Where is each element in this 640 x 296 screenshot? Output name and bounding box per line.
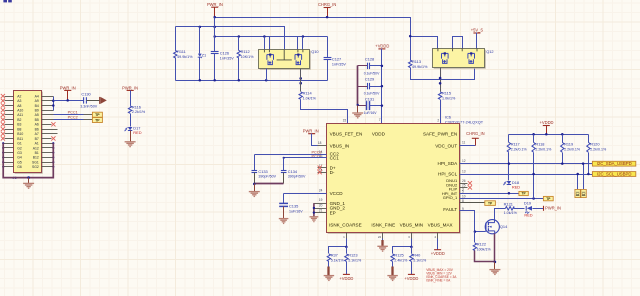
svg-text:G4: G4 — [17, 156, 22, 160]
wire GND bracket — [313, 203, 315, 216]
svg-text:GPIO_1: GPIO_1 — [443, 195, 458, 200]
svg-text:1.0k/1%: 1.0k/1% — [442, 96, 456, 100]
svg-text:Q10: Q10 — [311, 49, 319, 54]
resistor R40 — [411, 247, 413, 254]
svg-text:R118: R118 — [535, 142, 544, 147]
svg-text:SG1: SG1 — [32, 160, 39, 164]
svg-text:A12: A12 — [33, 146, 39, 150]
resistor R119 — [562, 135, 564, 143]
svg-text:390pF/50V: 390pF/50V — [288, 175, 306, 179]
wire R115 to SAFE_PWR_EN pin — [440, 100, 442, 124]
svg-text:R123: R123 — [348, 253, 357, 258]
ground at J6 — [28, 178, 30, 184]
svg-text:R113: R113 — [412, 59, 421, 64]
wire source rail y36 — [215, 36, 328, 38]
capacitor C126 — [214, 18, 216, 52]
svg-text:R37: R37 — [331, 253, 338, 258]
wire D17 to ground — [130, 131, 132, 142]
power port +VDDD (VBUS_MAX) — [434, 249, 441, 251]
svg-text:24: 24 — [319, 189, 323, 193]
wire Q12 drains to safe power — [440, 68, 442, 92]
svg-text:B8: B8 — [17, 127, 21, 131]
svg-text:C135: C135 — [289, 204, 298, 209]
transistor Q14 — [485, 220, 499, 234]
svg-text:I2C_SCL_USBPD: I2C_SCL_USBPD — [597, 172, 632, 177]
LED D18 — [507, 181, 512, 184]
wire gate rail y27 — [176, 27, 285, 50]
svg-text:2: 2 — [437, 119, 439, 123]
wire C130 to chassis — [87, 100, 100, 102]
svg-text:4: 4 — [434, 235, 436, 239]
svg-text:I2C_SDA_USBPD: I2C_SDA_USBPD — [597, 161, 632, 166]
svg-text:2.2k/0.1%: 2.2k/0.1% — [511, 148, 528, 152]
capacitor C135 — [283, 194, 285, 204]
resistor R113 — [409, 60, 412, 68]
jumper J (SDA) — [581, 189, 586, 197]
right pins rows 5-6 of J6 (PCC1/PCC2) — [42, 114, 54, 116]
wire Q14 drain to R121 — [495, 209, 506, 223]
svg-text:ISNK_FINE = 0A: ISNK_FINE = 0A — [426, 278, 451, 282]
svg-text:1uF/16V: 1uF/16V — [289, 209, 303, 213]
power port +VDDD (R40) — [411, 262, 413, 275]
svg-text:RED: RED — [512, 184, 520, 189]
svg-text:3.3nF/50V: 3.3nF/50V — [80, 104, 98, 108]
wire top rail PWR_IN/CHRG_IN — [215, 18, 411, 61]
svg-text:C133: C133 — [258, 169, 267, 174]
svg-text:B5: B5 — [35, 118, 39, 122]
svg-text:49.9k/1%: 49.9k/1% — [177, 55, 193, 59]
svg-text:B12: B12 — [33, 156, 39, 160]
wire ground loop around J6 — [3, 143, 53, 177]
chassis arrow after C130 — [99, 97, 101, 104]
svg-text:R111: R111 — [177, 49, 186, 54]
no-connect pins left of J6 (rows 1-10) — [5, 96, 14, 98]
svg-text:A2: A2 — [17, 94, 21, 98]
wire HPI_SCL — [460, 174, 593, 176]
wire R116 to D17 — [130, 114, 132, 127]
svg-text:Z1: Z1 — [202, 52, 207, 57]
wire Q10 drains down — [266, 69, 268, 81]
svg-text:15: 15 — [343, 119, 347, 123]
svg-text:C134: C134 — [288, 169, 298, 174]
port label I2C_SCL_USBPD — [592, 172, 635, 177]
svg-text:B7: B7 — [35, 137, 39, 141]
svg-text:VBUS_FET_EN: VBUS_FET_EN — [330, 132, 363, 137]
svg-text:A7: A7 — [35, 132, 39, 136]
wire C127 down to gate rail — [327, 60, 329, 81]
wire R114 to VBUS_FET_EN pin — [301, 100, 348, 124]
wire R122 to ground — [475, 251, 495, 262]
svg-text:Q12: Q12 — [486, 49, 493, 54]
svg-text:18: 18 — [318, 141, 322, 145]
svg-text:20: 20 — [319, 204, 323, 208]
ground pins left of J6 (rows 11-16) — [4, 143, 14, 145]
svg-text:TP: TP — [95, 119, 100, 123]
svg-text:+VDDD: +VDDD — [431, 251, 445, 256]
svg-text:2.2k/0.1%: 2.2k/0.1% — [564, 148, 581, 152]
svg-text:R125: R125 — [394, 253, 403, 258]
wire HPI_INT to test point — [460, 193, 519, 195]
svg-text:1.0k/1%: 1.0k/1% — [303, 96, 317, 100]
ground at D17 — [125, 141, 136, 143]
resistor R120 — [588, 135, 590, 143]
svg-text:D-: D- — [330, 170, 335, 175]
wire VCCD to C135 — [284, 193, 327, 195]
wire Q14 source to ground — [494, 234, 496, 262]
svg-text:3: 3 — [408, 235, 410, 239]
svg-text:B11: B11 — [17, 137, 23, 141]
svg-text:ISNK_FINE: ISNK_FINE — [371, 222, 395, 227]
svg-text:19: 19 — [319, 198, 323, 202]
wire VDC_OUT — [460, 145, 476, 147]
svg-text:ISNK_COARSE: ISNK_COARSE — [329, 222, 362, 227]
svg-text:10K/1%: 10K/1% — [241, 55, 255, 59]
svg-text:G3: G3 — [17, 151, 22, 155]
svg-text:1: 1 — [343, 235, 345, 239]
wire R113 bottom to Q12 drain rail — [411, 68, 475, 80]
svg-text:390pF/50V: 390pF/50V — [258, 175, 276, 179]
test point TP (PCC1) — [84, 114, 93, 116]
svg-text:2.2k/0.1%: 2.2k/0.1% — [535, 148, 552, 152]
svg-text:CHRG_IN: CHRG_IN — [318, 2, 336, 7]
ground at cap bank — [357, 106, 359, 113]
capacitor C127 — [327, 37, 329, 58]
svg-text:22: 22 — [378, 235, 382, 239]
svg-text:SAFE_PWR_EN: SAFE_PWR_EN — [423, 132, 457, 137]
wire CC1 — [284, 157, 327, 159]
svg-text:PWR_IN: PWR_IN — [60, 85, 76, 90]
svg-text:R116: R116 — [132, 104, 141, 109]
svg-text:A5: A5 — [35, 113, 39, 117]
test point TP (GPIO_1) — [543, 196, 553, 200]
ground at ISNK_FINE — [377, 245, 388, 247]
svg-text:C127: C127 — [332, 56, 341, 61]
svg-text:+VDDD: +VDDD — [540, 120, 554, 125]
svg-text:12: 12 — [462, 159, 466, 163]
capacitor C133 — [254, 155, 256, 171]
wire CC caps ground bar — [255, 183, 284, 185]
svg-text:B1: B1 — [35, 151, 39, 155]
svg-text:VBUS_MAX: VBUS_MAX — [428, 222, 453, 227]
svg-text:A1: A1 — [35, 142, 39, 146]
wire HPI_SDA — [460, 163, 593, 165]
TVS diode Z1 — [199, 27, 201, 54]
svg-text:11: 11 — [462, 140, 466, 144]
svg-text:B4: B4 — [35, 104, 39, 108]
wire Q10 top pins — [264, 37, 266, 50]
svg-text:G2: G2 — [17, 146, 22, 150]
svg-text:100k/1%: 100k/1% — [477, 247, 492, 251]
wire +VDDD vertical to VDDD pin — [381, 49, 383, 124]
svg-text:A8: A8 — [17, 104, 21, 108]
wire PWR_IN vertical at connector — [53, 97, 55, 111]
svg-text:CHRG_IN: CHRG_IN — [466, 131, 484, 136]
svg-text:C129: C129 — [365, 77, 374, 82]
resistor R111 — [175, 27, 177, 51]
svg-text:VBUS_MIN: VBUS_MIN — [400, 222, 424, 227]
wire PCC1 — [54, 114, 84, 116]
svg-text:R122: R122 — [477, 242, 486, 247]
pin 3 VBUS_MIN wire — [411, 233, 413, 239]
svg-text:PCC2: PCC2 — [68, 116, 78, 120]
svg-text:SG2: SG2 — [32, 165, 39, 169]
resistor R122 — [473, 243, 476, 251]
no-connect pins right of J6 (rows 7-10) — [42, 124, 52, 126]
wire gate bottom rail y80 — [176, 80, 328, 82]
svg-text:G6: G6 — [17, 165, 22, 169]
svg-text:1nF/35V: 1nF/35V — [332, 63, 346, 67]
svg-text:C128: C128 — [365, 56, 374, 61]
svg-text:5.1k/1%: 5.1k/1% — [413, 258, 427, 262]
svg-text:EP: EP — [330, 210, 336, 215]
resistor R117 — [508, 135, 510, 143]
svg-text:1uF/16V: 1uF/16V — [364, 111, 378, 115]
svg-text:R112: R112 — [241, 49, 250, 54]
svg-text:A4: A4 — [35, 94, 39, 98]
svg-text:7: 7 — [379, 118, 381, 122]
resistor R114 — [299, 92, 302, 100]
svg-text:R117: R117 — [511, 142, 520, 147]
wire +VDDD rail — [509, 134, 589, 136]
pin 4 VBUS_MAX wire — [437, 233, 439, 239]
ground at C135 — [283, 207, 285, 219]
svg-text:C126: C126 — [220, 50, 229, 55]
wire PWR_IN row — [54, 100, 84, 102]
svg-text:G5: G5 — [17, 160, 22, 164]
svg-text:5.1k/1%: 5.1k/1% — [331, 258, 345, 262]
jumper J (SCL) — [575, 189, 580, 197]
wire SCL to jumper — [577, 175, 579, 190]
junction cap bank ground — [357, 104, 359, 106]
svg-text:+5V_S: +5V_S — [471, 28, 484, 33]
transistor Q12 (dual P-FET) — [434, 50, 486, 69]
svg-text:HPI_SDA: HPI_SDA — [438, 161, 459, 166]
resistor R115 — [438, 92, 441, 100]
test point TP (HPI_INT) — [519, 191, 528, 195]
wire SDA to jumper — [583, 164, 585, 190]
svg-text:5.1k/1%: 5.1k/1% — [348, 258, 362, 262]
svg-text:1nF/35V: 1nF/35V — [220, 57, 234, 61]
svg-text:1.0k/1%: 1.0k/1% — [504, 211, 518, 215]
svg-text:C131: C131 — [365, 96, 374, 101]
svg-text:0.1uF/50V: 0.1uF/50V — [364, 92, 380, 96]
svg-text:B10: B10 — [17, 132, 23, 136]
svg-text:VDDD: VDDD — [372, 132, 386, 137]
transistor Q10 (dual P-FET) — [260, 51, 311, 70]
svg-text:R120: R120 — [590, 142, 600, 147]
junction at J6 ground — [27, 176, 30, 179]
svg-text:VCCD: VCCD — [330, 191, 344, 196]
svg-text:D19: D19 — [524, 201, 531, 206]
svg-text:B9: B9 — [35, 109, 39, 113]
svg-text:2.2k/1%: 2.2k/1% — [132, 110, 146, 114]
svg-text:FAULT: FAULT — [443, 207, 457, 212]
svg-text:HPI_SCL: HPI_SCL — [438, 171, 458, 176]
svg-text:B3: B3 — [17, 123, 21, 127]
connector J6 — [15, 92, 43, 174]
svg-text:+VDDD: +VDDD — [404, 276, 418, 281]
resistor R123 — [346, 247, 348, 254]
svg-text:R121: R121 — [504, 202, 513, 207]
test point TP (PCC2) — [84, 119, 93, 121]
test point TP (pin 8) — [485, 201, 496, 206]
svg-text:2.2k/0.1%: 2.2k/0.1% — [590, 148, 607, 152]
ground at IC GND pins — [310, 216, 319, 218]
power port +VDDD (R123) — [346, 262, 348, 275]
svg-text:PWR_IN: PWR_IN — [303, 129, 319, 134]
wire D19 to PWR_IN — [533, 208, 544, 210]
svg-text:CC1: CC1 — [330, 156, 340, 161]
wire Q12 interconnect pins — [453, 37, 463, 49]
svg-text:A9: A9 — [35, 99, 39, 103]
capacitor C130 — [83, 97, 85, 103]
svg-text:A6: A6 — [35, 123, 39, 127]
resistor R112 — [238, 37, 240, 51]
svg-text:Q14: Q14 — [500, 224, 508, 229]
wire R113 tap to Q12 gate — [411, 37, 438, 49]
wire ground bus of cap bank — [357, 66, 359, 106]
svg-text:RED: RED — [133, 130, 141, 135]
svg-text:A3: A3 — [17, 99, 21, 103]
svg-text:49.9k/1%: 49.9k/1% — [412, 65, 428, 69]
svg-text:B6: B6 — [35, 127, 39, 131]
svg-text:A11: A11 — [17, 113, 23, 117]
port label I2C_SDA_USBPD — [592, 161, 635, 166]
pin 1 ISNK_COARSE wire — [346, 233, 348, 239]
resistor R118 — [533, 135, 535, 143]
svg-text:+VDDD: +VDDD — [339, 276, 353, 281]
ground at CC caps — [254, 184, 256, 192]
svg-text:RED: RED — [524, 213, 532, 218]
resistor R125 — [391, 254, 394, 262]
wire FAULT to Q14 gate — [460, 211, 486, 232]
svg-text:R114: R114 — [303, 90, 313, 95]
svg-text:13: 13 — [462, 169, 466, 173]
right pins rows 1-4 of J6 (PWR_IN) — [42, 96, 54, 98]
capacitor C134 — [283, 158, 285, 171]
svg-text:R115: R115 — [442, 90, 451, 95]
svg-text:PWR_IN: PWR_IN — [207, 2, 223, 7]
svg-text:C130: C130 — [81, 91, 91, 96]
ground at Q14 — [494, 262, 496, 270]
pin 22 ISNK_FINE ground — [382, 233, 384, 239]
wire CC2 — [255, 154, 327, 156]
svg-text:VDC_OUT: VDC_OUT — [435, 143, 457, 148]
svg-text:21: 21 — [319, 208, 323, 212]
power port PWR_IN (D19) — [543, 206, 545, 211]
svg-text:VBUS_IN: VBUS_IN — [330, 143, 350, 148]
resistor R37 — [327, 254, 330, 262]
IC U IC6 CYPD3177-24LQXQT body — [328, 125, 461, 234]
wire PCC2 — [54, 119, 84, 121]
svg-text:A10: A10 — [17, 109, 23, 113]
svg-text:B2: B2 — [17, 118, 21, 122]
svg-text:PCC1: PCC1 — [68, 111, 78, 115]
svg-text:G1: G1 — [17, 142, 22, 146]
ground at R37 — [328, 262, 330, 267]
svg-text:0.1uF/50V: 0.1uF/50V — [364, 71, 380, 75]
wire GPIO_1 to test point — [460, 198, 544, 200]
net label (clipped text at sheet top) — [3, 0, 7, 2]
svg-text:R119: R119 — [564, 142, 573, 147]
svg-text:2.4k/1%: 2.4k/1% — [394, 258, 408, 262]
resistor R116 — [128, 106, 131, 114]
ground pins right of J6 (rows 11-16) — [42, 143, 54, 145]
svg-text:PWR_IN: PWR_IN — [545, 206, 561, 211]
svg-text:R40: R40 — [413, 253, 421, 258]
LED D17 — [128, 127, 133, 130]
svg-text:PWR_IN: PWR_IN — [122, 85, 138, 90]
ground at R125 — [392, 262, 394, 267]
svg-text:TP: TP — [95, 113, 100, 117]
svg-text:+VDDD: +VDDD — [375, 44, 389, 49]
